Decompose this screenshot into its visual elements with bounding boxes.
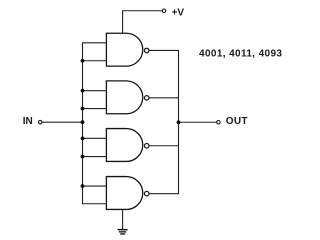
svg-text:+V: +V	[172, 7, 185, 18]
svg-text:OUT: OUT	[226, 116, 248, 127]
svg-text:IN: IN	[23, 116, 33, 127]
svg-text:4001, 4011, 4093: 4001, 4011, 4093	[199, 48, 282, 59]
